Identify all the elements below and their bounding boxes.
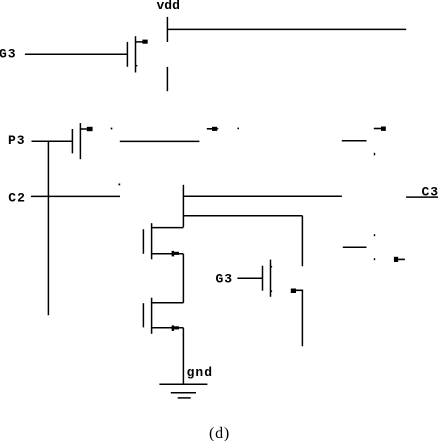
svg-text:G3: G3 (0, 47, 17, 62)
transistor M3 gate bar (262, 266, 264, 291)
transistor M1 source arrow (136, 40, 148, 44)
node dot F (119, 184, 121, 186)
transistor M2 gate bar (71, 129, 73, 153)
wire M4 to M5 (182, 254, 184, 303)
node dot A (111, 128, 113, 130)
transistor M2 channel bar (79, 123, 81, 159)
wire mid vertical (182, 185, 184, 228)
transistor M1 gate bar (126, 42, 128, 67)
wire gate lead G3 mid (237, 277, 262, 279)
wire gate lead G3 top (25, 53, 128, 55)
transistor M5 channel bar (151, 298, 153, 334)
source arrow mark I (394, 257, 405, 262)
wire branch vertical down (301, 216, 303, 267)
transistor M4 channel bar (151, 223, 153, 259)
svg-text:gnd: gnd (187, 365, 213, 380)
wire M4 source with arrow (152, 251, 184, 257)
wire M5 drain (152, 302, 184, 304)
gate bar tick H (374, 258, 375, 260)
wire gate lead P3 (32, 140, 73, 142)
transistor M1 drain stub (136, 65, 138, 67)
wire vdd rail (167, 28, 406, 30)
svg-text:vdd: vdd (157, 0, 180, 13)
svg-text:G3: G3 (216, 272, 234, 287)
wire gate lead right mid (343, 246, 367, 248)
transistor M5 gate bar (142, 303, 144, 327)
wire C2 net segment (183, 195, 342, 197)
wire M5 source to ground (182, 328, 184, 385)
gate bar tick E (374, 153, 375, 156)
wire vdd drop segment (166, 67, 168, 91)
transistor M2 source arrow (81, 127, 93, 131)
wire M4 drain (152, 227, 184, 229)
wire M5 source with arrow (152, 325, 184, 331)
wire C3 lead (406, 196, 438, 198)
svg-text:P3: P3 (8, 133, 26, 148)
transistor M3 channel bar (270, 260, 272, 297)
svg-text:C2: C2 (8, 191, 26, 206)
node dot C (237, 128, 239, 130)
transistor M1 channel bar (135, 36, 137, 72)
wire vdd stub (166, 17, 168, 42)
wire C2 lead (31, 195, 120, 197)
arrow mark D (374, 127, 386, 131)
wire gate lead right top (342, 140, 367, 142)
transistor M3 source arrow (291, 289, 303, 294)
transistor M3 drain stub (271, 266, 273, 268)
wire M3 source vertical (301, 290, 303, 346)
ground symbol (159, 384, 207, 398)
wire junction vertical from P3 (47, 141, 49, 315)
transistor M3 source stub (271, 290, 273, 292)
gate bar tick G (374, 234, 375, 236)
transistor M4 gate bar (142, 229, 144, 254)
arrow mark B (207, 127, 219, 131)
svg-text:(d): (d) (209, 425, 230, 441)
wire P3 row segment (120, 140, 200, 142)
wire branch horizontal (183, 215, 302, 217)
